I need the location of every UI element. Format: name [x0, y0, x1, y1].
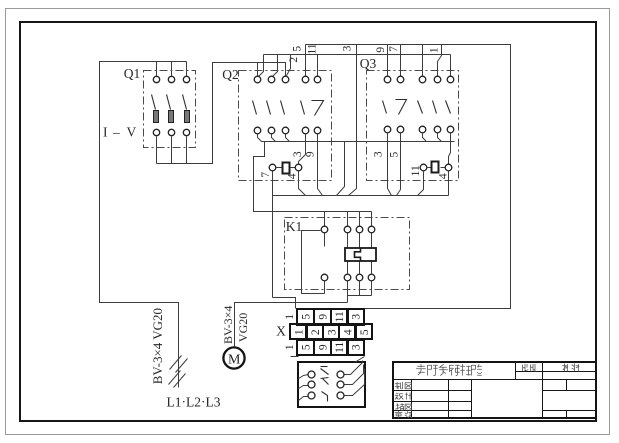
svg-text:9: 9	[317, 344, 329, 350]
motor M	[223, 347, 244, 368]
svg-text:5: 5	[301, 314, 313, 320]
wire supply riser from L1L2L3 to Q1 top	[100, 62, 187, 388]
fuse unit of Q2 (7-4)	[260, 163, 302, 180]
svg-text:3: 3	[342, 45, 354, 51]
switch-fuse unit Q1	[103, 66, 196, 164]
Q2 pole 3	[281, 76, 290, 141]
title block	[393, 362, 597, 419]
wire stub X to plug	[291, 356, 299, 358]
svg-text:–: –	[112, 125, 120, 140]
Q3 pole 1	[383, 76, 392, 195]
plug connector unit	[298, 357, 365, 408]
title block grid lines	[393, 363, 596, 419]
svg-text:3: 3	[326, 329, 338, 335]
svg-text:VG20: VG20	[236, 313, 250, 342]
label 制图 pseudo-CJK	[395, 382, 412, 389]
svg-text:K1: K1	[286, 219, 303, 234]
node top distribution band bottom line	[264, 54, 451, 56]
wire 7 drop from Q2 fuse	[272, 172, 274, 298]
svg-text:1: 1	[294, 329, 306, 335]
K1 label leader and loop	[302, 231, 325, 294]
K1 pole 2	[344, 226, 351, 281]
school name pseudo-CJK 学院系部班级	[417, 364, 482, 375]
wire K1 poles 2-4 output junction	[348, 281, 372, 303]
corner cut diagonal	[355, 357, 365, 363]
Q3 enclosure	[367, 71, 459, 181]
Q1 pole 2	[167, 76, 175, 163]
svg-text:7: 7	[388, 46, 400, 52]
svg-text:L1·L2·L3: L1·L2·L3	[167, 395, 221, 410]
wire Q1 output bus and riser to Q2 feed	[157, 63, 286, 164]
wire risers Q2 poles 4,5	[305, 45, 307, 77]
Q1 enclosure	[144, 71, 196, 148]
label 审核 pseudo-CJK	[395, 411, 412, 418]
Q2 pole 4	[299, 76, 309, 164]
K1 contact pole 1	[321, 226, 328, 293]
svg-text:Q2: Q2	[222, 67, 239, 82]
svg-text:M: M	[228, 352, 241, 367]
svg-text:7: 7	[260, 172, 272, 178]
Q2 pole 2	[267, 76, 276, 141]
bottom row cells	[297, 340, 364, 355]
label 设计 pseudo-CJK	[395, 393, 412, 400]
wire control bus under Q2/Q3	[273, 195, 449, 197]
svg-text:9: 9	[317, 314, 329, 320]
svg-text:BV-3×4: BV-3×4	[221, 306, 235, 344]
middle row cells	[290, 324, 372, 339]
Q2 pole 5 late-break contact	[312, 76, 324, 195]
svg-text:5: 5	[389, 151, 401, 157]
label 材料 pseudo-CJK	[563, 364, 580, 372]
wire feed from bus to K1 coil circuit	[254, 142, 372, 212]
svg-text:5: 5	[359, 329, 371, 335]
Q3 pole 5	[446, 76, 454, 164]
svg-text:9: 9	[304, 151, 316, 157]
svg-text:1: 1	[284, 344, 296, 350]
Q2 pole 1	[253, 76, 262, 141]
svg-text:2: 2	[288, 57, 300, 63]
wire drop to Q2 pole1	[257, 63, 259, 77]
wire link from output bus to control bus	[337, 142, 345, 196]
K1 coil	[345, 248, 376, 261]
connector row 1	[299, 361, 363, 379]
svg-text:X: X	[276, 324, 286, 339]
wire 7 to terminal block	[273, 298, 296, 309]
Q1 pole 3	[183, 76, 190, 163]
svg-text:3: 3	[351, 344, 363, 350]
wire motor feed line	[235, 303, 348, 348]
wire drop from Q3 fuse left	[418, 171, 424, 196]
svg-text:1: 1	[284, 314, 296, 320]
svg-text:3: 3	[292, 151, 304, 157]
K1 enclosure	[285, 218, 410, 290]
Q3 pole 3	[418, 76, 427, 141]
wire drops from feed line to K1 poles	[325, 212, 372, 227]
svg-text:2: 2	[310, 329, 322, 335]
svg-text:9: 9	[375, 47, 387, 53]
svg-text:Q3: Q3	[360, 56, 377, 71]
wire risers Q3 poles	[388, 45, 451, 77]
svg-text:BV-3×4 VG20: BV-3×4 VG20	[150, 308, 165, 384]
wire feeds with jogs to Q2 poles 1-3	[259, 55, 291, 77]
svg-text:3: 3	[351, 314, 363, 320]
Q3 pole 4	[433, 76, 442, 141]
svg-text:5: 5	[291, 46, 303, 52]
label 描图 pseudo-CJK	[396, 404, 412, 411]
svg-text:5: 5	[301, 344, 313, 350]
connector row 2	[299, 365, 364, 389]
svg-text:11: 11	[410, 165, 422, 176]
relay K1	[285, 212, 410, 303]
connector row 3	[299, 369, 365, 402]
svg-text:Q1: Q1	[124, 66, 141, 81]
wire Q2/Q3 output bus	[262, 141, 455, 143]
node top distribution band top line	[306, 45, 511, 309]
svg-text:V: V	[127, 125, 137, 140]
Q2 enclosure	[239, 71, 332, 181]
svg-text:11: 11	[334, 342, 346, 353]
wire Q1 pole drops	[157, 62, 187, 77]
svg-text:11: 11	[334, 311, 346, 322]
Q1 pole 1	[152, 76, 160, 163]
wire drop from Q3 fuse right	[448, 171, 450, 196]
svg-text:4: 4	[343, 329, 355, 335]
K1 pole 3	[356, 226, 363, 281]
svg-text:I: I	[103, 125, 108, 140]
svg-text:1: 1	[429, 47, 441, 53]
K1 pole 4	[368, 226, 375, 281]
svg-text:3: 3	[372, 151, 384, 157]
wire 3 drop between Q2 and Q3	[349, 45, 357, 196]
title block outline	[393, 362, 596, 418]
connector enclosure	[298, 362, 365, 407]
terminal block X	[276, 309, 372, 355]
svg-text:11: 11	[307, 43, 319, 54]
svg-text:4: 4	[437, 173, 449, 179]
cable hash marks (3-phase)	[169, 356, 188, 388]
label 比例 pseudo-CJK	[523, 364, 536, 371]
Q3 pole 2 late-break contact	[396, 76, 407, 195]
contactor Q3	[360, 45, 459, 196]
contactor Q2	[222, 45, 331, 298]
wire 3 drop from Q2 fuse right to control bus	[299, 172, 306, 196]
fuse unit of Q3 (11-4)	[410, 162, 452, 180]
svg-text:4: 4	[286, 173, 298, 179]
top row cells	[297, 309, 364, 325]
